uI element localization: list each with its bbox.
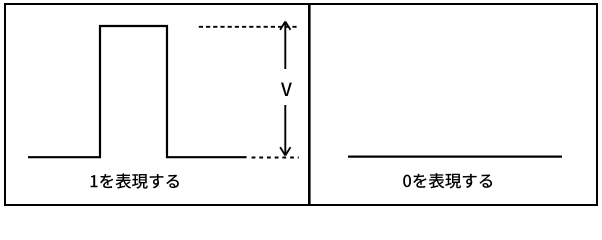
- bottom dashed level line: [252, 157, 299, 159]
- caption: 1を表現する: [91, 173, 179, 188]
- caption: 0を表現する: [403, 173, 492, 188]
- flat baseline (logic 0): [348, 156, 562, 158]
- label V (pulse amplitude): [281, 83, 292, 96]
- dimension arrow upper segment: [284, 24, 286, 70]
- panel divider: [308, 3, 311, 206]
- upper arrowhead: [280, 22, 290, 30]
- lower arrowhead: [280, 147, 290, 155]
- top dashed level line: [199, 26, 299, 28]
- dimension arrow lower segment: [284, 105, 286, 154]
- pulse waveform (logic 1): [28, 26, 247, 157]
